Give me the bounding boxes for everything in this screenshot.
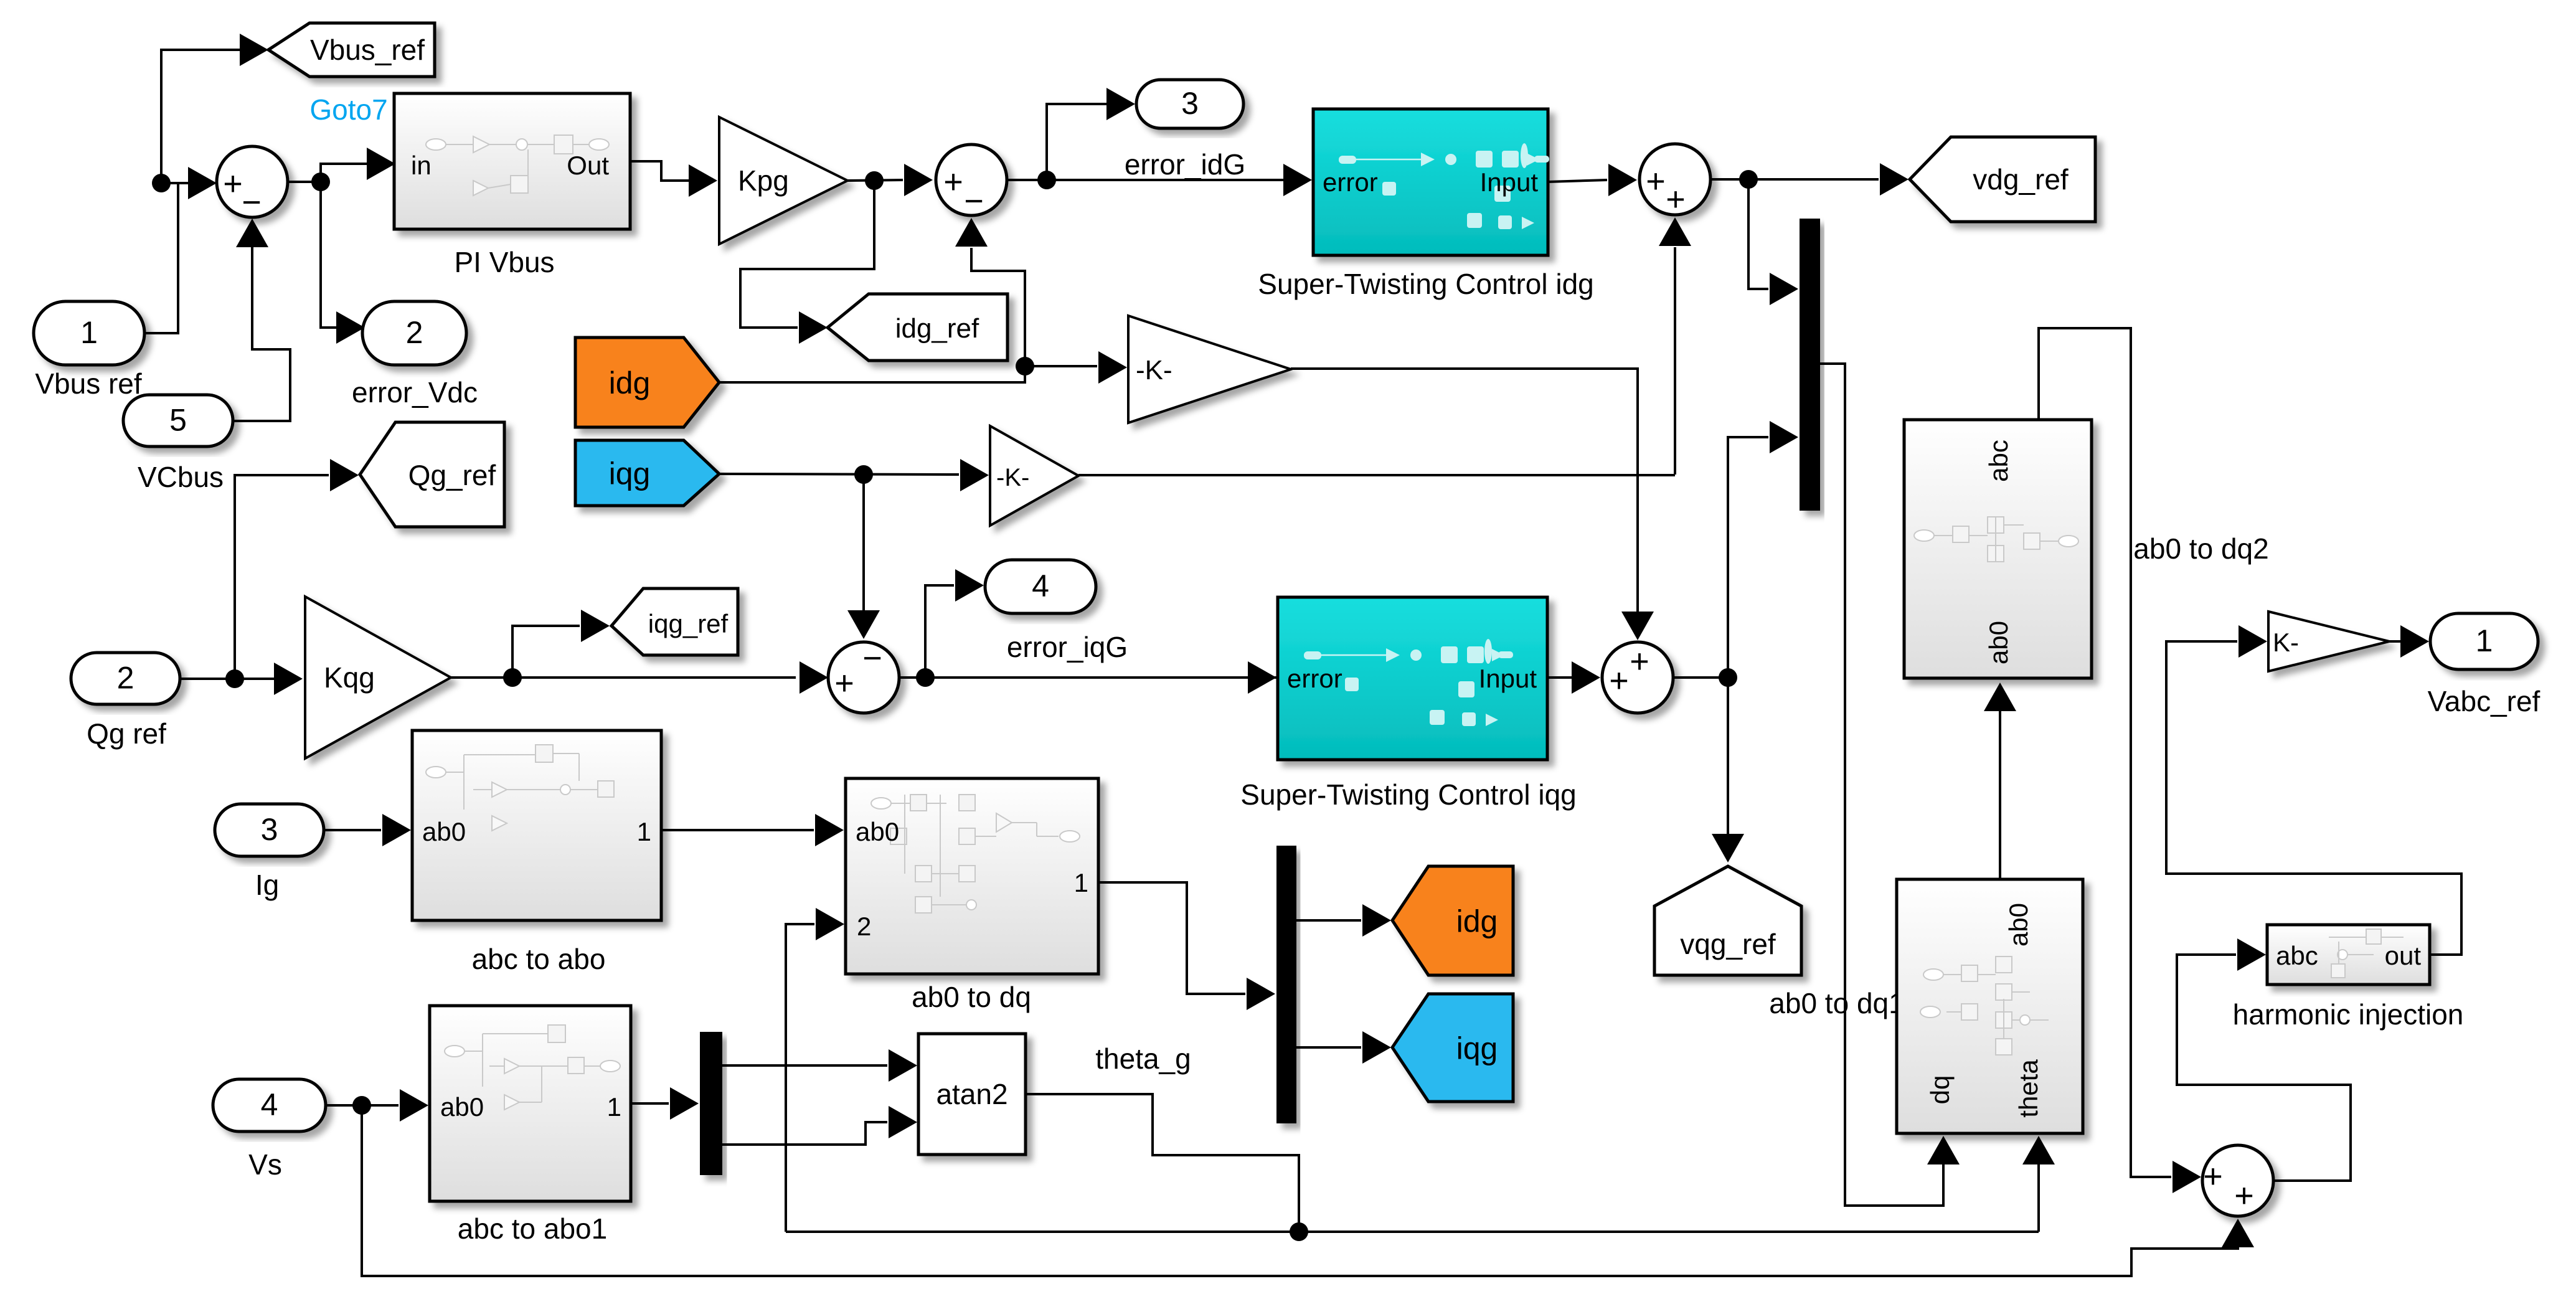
sum junction S4 [1602,642,1673,713]
goto tag Vbus_ref [268,23,435,77]
arrow sum1 bottom [236,219,268,247]
arrow into sum2 [904,164,933,196]
arrow into Kqg [274,663,303,695]
arrow into ab0-to-dq in1 [815,814,844,846]
arrow into abc to abo1 [400,1089,428,1122]
svg-text:theta: theta [2014,1059,2043,1118]
svg-text:error_Vdc: error_Vdc [352,376,478,409]
wire demux2 out2 to atan2 [722,1122,887,1145]
svg-text:Super-Twisting Control iqg: Super-Twisting Control iqg [1240,778,1576,811]
junction dot G [854,465,873,484]
label Super-Twisting Control idg [1258,268,1593,300]
goto tag vqg_ref [1654,866,1801,975]
arrow into port2 errorVdc [336,311,365,344]
svg-text:ab0: ab0 [1984,621,2013,664]
junction dot K [1719,668,1737,687]
wire sum3 bottom input [1674,247,1676,475]
svg-text:+: + [1630,643,1649,680]
goto tag Qg_ref [360,422,504,527]
arrow sum4 top [1621,612,1654,640]
wire sum5 out loop to harmonic [2177,955,2351,1181]
goto tag vdg_ref [1910,137,2095,222]
svg-text:+: + [223,165,243,202]
wire demux2 out1 to atan2 [722,1064,887,1067]
sum junction S2 [936,144,1007,220]
arrow into idg goto [1362,904,1391,937]
subsystem abc to abo [412,730,661,920]
wire Kpg out [847,180,903,181]
wire harmonic out loop to K- [2166,641,2461,955]
junction dot C [865,171,884,190]
svg-text:Goto7: Goto7 [309,93,387,126]
wire sum4 to vqg_ref [1727,678,1729,834]
wire port2 to Kqg [180,678,274,680]
svg-text:vdg_ref: vdg_ref [1973,163,2069,196]
label error_idG [1125,148,1245,181]
demux Demux3 [1276,846,1296,1123]
svg-text:3: 3 [261,812,278,847]
gain Kqg [305,597,451,758]
svg-text:Qg ref: Qg ref [87,717,166,750]
gain Kpg [719,117,847,244]
label ab0 to dq1 [1769,987,1904,1019]
svg-text:abc: abc [2276,941,2318,970]
arrow into harmonic [2237,938,2266,971]
label ab0 to dq2 [2133,532,2268,565]
wire sum2 out [1007,179,1283,181]
svg-text:dq: dq [1925,1075,1955,1105]
subsystem abc to abo1 [430,1006,631,1201]
wire ab0-to-dq out to demux3 [1098,882,1245,994]
arrow sum3 bottom [1659,217,1691,246]
svg-text:K-: K- [2273,628,2299,657]
wire theta_g distribution [786,1231,2039,1233]
junction dot J [916,668,935,687]
wire sum1 out [288,164,367,182]
arrow into sum1 [188,167,217,199]
junction dot F [1739,170,1758,189]
svg-text:5: 5 [169,403,187,438]
wire branch to port4 [925,585,954,678]
wire K- out [2389,640,2400,643]
label ab0 to dq [912,981,1031,1013]
svg-text:3: 3 [1181,86,1199,121]
wire branch to Qg_ref tag [235,475,329,679]
svg-text:atan2: atan2 [936,1078,1007,1110]
wire port1 to sum1 [144,183,178,333]
goto tag iqg (blue) [1392,994,1513,1102]
svg-text:2: 2 [117,661,134,696]
wire sum3 to mux1 in1 [1748,179,1768,289]
arrow into abc to abo [382,814,411,846]
subsystem harmonic injection [2267,925,2430,985]
wire -K-2 to sum3 bottom [1078,474,1675,476]
subsystem Super-Twisting Control idg [1313,109,1549,255]
svg-text:1: 1 [637,817,651,846]
arrow sum6 top [847,610,880,639]
svg-text:PI Vbus: PI Vbus [454,246,554,278]
svg-text:Ig: Ig [255,869,279,901]
svg-text:ab0: ab0 [856,817,899,846]
arrow into theta port [2022,1136,2055,1164]
wire dq1 ab0-out up to dq2 [1999,711,2001,879]
wire sum2 bottom input [971,248,1025,366]
arrow into port3 [1106,88,1135,120]
arrow into sum4 [1572,661,1600,694]
svg-text:iqg: iqg [1456,1031,1498,1066]
wire sum4 out [1674,676,1728,679]
gain -K-2 (iqg) [990,426,1078,526]
arrow into Vbus_ref [240,34,268,66]
label abc to abo [472,943,606,975]
svg-text:idg: idg [609,366,651,400]
subsystem ab0 to dq1 (dq/theta) [1897,879,2083,1133]
wire to error_Vdc port [321,182,336,328]
arrow into sum5 left [2173,1161,2201,1193]
arrow into idg_ref tag [799,311,828,344]
svg-text:1: 1 [1074,868,1088,897]
wire abo1 out to demux2 [631,1102,669,1105]
arrow into K- [2239,625,2267,658]
junction dot B [311,172,330,191]
arrow into sum3 [1608,164,1637,196]
svg-text:2: 2 [857,912,871,941]
subsystem ab0 to dq [846,778,1098,974]
gain K- [2268,612,2389,671]
svg-text:+: + [1666,181,1686,218]
wire Kqg out [451,676,796,679]
arrow into port4 [955,569,984,602]
wire abc-abo out [661,829,814,831]
svg-text:1: 1 [2476,623,2493,658]
demux Demux2 [700,1032,722,1175]
svg-text:vqg_ref: vqg_ref [1680,928,1776,960]
from tag idg [575,338,719,427]
arrow into vdg_ref [1880,163,1908,196]
inport 2 Qg ref [71,653,180,704]
svg-text:abc to abo1: abc to abo1 [458,1212,607,1245]
svg-text:ab0 to dq1: ab0 to dq1 [1769,987,1904,1019]
svg-text:2: 2 [406,315,423,350]
svg-text:Vbus_ref: Vbus_ref [310,34,425,66]
arrow into -K-2 [960,459,989,491]
svg-text:harmonic injection: harmonic injection [2233,998,2464,1031]
svg-text:−: − [964,182,984,220]
junction dot A [152,174,171,192]
svg-text:Kqg: Kqg [324,661,375,694]
wire branch to iqg_ref [512,626,580,678]
wire iqg out [719,474,959,475]
arrow into iqg goto [1362,1031,1391,1064]
wire port3 to abc-abo [324,829,381,831]
label Ig [255,869,279,901]
label error_Vdc [352,376,478,409]
svg-text:+: + [2234,1177,2254,1214]
svg-text:iqg_ref: iqg_ref [648,609,729,638]
arrow into Kpg [689,164,717,197]
junction dot M [1290,1222,1308,1241]
arrow into vqg_ref [1712,834,1744,862]
svg-text:-K-: -K- [996,464,1029,491]
svg-text:1: 1 [80,315,98,350]
outport 3 error_idG [1136,80,1243,128]
wire theta up to dq1 theta port [2037,1163,2040,1232]
svg-text:Qg_ref: Qg_ref [408,459,496,491]
wire sum5 bottom input [362,1105,2238,1276]
wire demux3 out1 [1296,919,1361,922]
svg-text:ab0: ab0 [440,1092,484,1122]
inport 1 Vbus ref [34,301,144,365]
junction dot L [352,1096,371,1115]
wire theta to ab0-to-dq in2 [786,924,814,1232]
wire idg out [719,366,1097,382]
wire dot to Vbus_ref tag [161,50,242,183]
goto tag idg (orange) [1392,866,1513,975]
svg-text:4: 4 [1032,569,1049,603]
arrow into Vabc_ref [2400,625,2429,658]
subsystem ab0 to dq2 (abc/ab0) [1904,420,2092,678]
svg-text:error_idG: error_idG [1125,148,1245,181]
arrow atan2 in1 [889,1049,917,1082]
label VCbus [138,461,224,493]
svg-text:idg: idg [1456,904,1498,939]
label abc to abo1 [458,1212,607,1245]
arrow atan2 in2 [889,1106,917,1138]
label theta_g [1095,1042,1191,1075]
inport 3 Ig [215,804,324,856]
annotation Goto7 [309,93,387,126]
wire port5 to sum1 bottom [233,246,290,421]
svg-text:Vbus ref: Vbus ref [35,367,142,400]
wire port4 to abc-abo1 [326,1104,399,1107]
wire STC iqg out [1547,676,1572,679]
sum junction S1 [217,146,288,221]
wire into sum1 [161,182,188,184]
svg-text:theta_g: theta_g [1095,1042,1191,1075]
arrow into Qg_ref tag [330,459,359,491]
svg-text:abc to abo: abc to abo [472,943,606,975]
sum junction S6 [828,640,899,713]
svg-text:Out: Out [567,151,609,180]
junction dot I [503,668,522,687]
arrow into STC idg [1283,164,1312,196]
goto tag iqg_ref [611,588,738,655]
block atan2 [918,1034,1026,1155]
svg-text:-K-: -K- [1136,355,1172,385]
subsystem Super-Twisting Control iqg [1278,597,1547,760]
svg-text:iqg: iqg [609,456,651,491]
junction dot D [1037,171,1056,189]
arrow into sum6 [800,661,828,694]
junction dot H [225,669,244,688]
svg-text:ab0: ab0 [2004,903,2033,947]
goto tag idg_ref [828,294,1007,361]
svg-text:ab0 to dq: ab0 to dq [912,981,1031,1013]
arrow into PI Vbus [367,148,395,180]
svg-text:+: + [2203,1158,2223,1195]
svg-text:ab0 to dq2: ab0 to dq2 [2133,532,2268,565]
arrow sum2 bottom [955,218,988,247]
arrow into iqg_ref tag [581,610,610,642]
sum junction S5 [2202,1145,2273,1216]
sum junction S3 [1639,144,1710,218]
wire dq2 abc-out loop [2039,328,2171,1177]
svg-text:+: + [834,664,854,702]
label Vbus ref [35,367,142,400]
svg-text:Kpg: Kpg [738,164,789,197]
label Super-Twisting Control iqg [1240,778,1576,811]
svg-text:+: + [943,163,963,201]
outport 2 error_Vdc [362,301,466,365]
svg-text:+: + [1646,163,1666,200]
arrow into STC iqg [1248,661,1276,694]
svg-text:Input: Input [1480,168,1539,197]
svg-text:Vabc_ref: Vabc_ref [2428,685,2541,717]
arrow sum5 bottom [2222,1219,2254,1247]
arrow into demux2 [670,1087,699,1120]
svg-text:Super-Twisting Control idg: Super-Twisting Control idg [1258,268,1593,300]
from tag iqg [575,440,719,506]
svg-text:error: error [1287,664,1342,693]
svg-text:Input: Input [1479,664,1537,693]
svg-text:in: in [411,151,432,180]
svg-text:out: out [2385,941,2422,970]
svg-text:error: error [1323,168,1378,197]
label Qg ref [87,717,166,750]
svg-text:Vs: Vs [248,1148,282,1181]
inport 5 VCbus [123,395,233,446]
wire mux1 out to dq input [1820,364,1943,1206]
arrow into demux3 [1247,978,1275,1010]
svg-text:+: + [1609,662,1629,699]
arrow ab0-to-dq in2 [816,908,844,940]
wire -K-1 to sum4 top [1291,369,1638,612]
subsystem PI Vbus [394,93,630,229]
svg-text:−: − [862,640,882,677]
svg-text:abc: abc [1984,440,2013,482]
inport 4 Vs [213,1079,326,1131]
outport 4 error_iqG [985,560,1096,613]
wire sum6 out [899,676,1276,679]
wire branch to port3 [1047,104,1106,180]
label harmonic injection [2233,998,2464,1031]
label Vabc_ref [2428,685,2541,717]
label Vs [248,1148,282,1181]
svg-text:ab0: ab0 [422,817,466,846]
wire PI Vbus to Kpg [630,161,689,181]
wire sum4 to mux1 in2 [1728,437,1768,678]
svg-text:error_iqG: error_iqG [1007,631,1128,663]
svg-text:1: 1 [607,1092,621,1122]
label error_iqG [1007,631,1128,663]
arrow mux1 in2 [1770,421,1798,453]
svg-text:−: − [242,184,262,221]
wire iqg to sum6 top [862,475,865,610]
wire demux3 out2 [1296,1046,1361,1049]
svg-text:VCbus: VCbus [138,461,224,493]
arrow into dq2 ab0 port [1984,683,2016,711]
arrow mux1 in1 [1770,273,1798,305]
mux Mux1 [1800,219,1820,511]
svg-text:4: 4 [261,1087,278,1122]
junction dot E [1016,357,1034,376]
label PI Vbus [454,246,554,278]
wire Kpg branch to idg_ref [740,181,874,328]
svg-text:idg_ref: idg_ref [895,313,979,344]
wire atan2 out theta_g [1026,1094,1299,1232]
arrow into dq port [1927,1136,1960,1164]
gain -K-1 (idg) [1128,316,1291,423]
wire sum3 out [1710,178,1879,181]
wire STC idg out [1548,180,1607,182]
arrow into -K-1 [1098,351,1127,384]
outport 1 Vabc_ref [2430,613,2538,669]
